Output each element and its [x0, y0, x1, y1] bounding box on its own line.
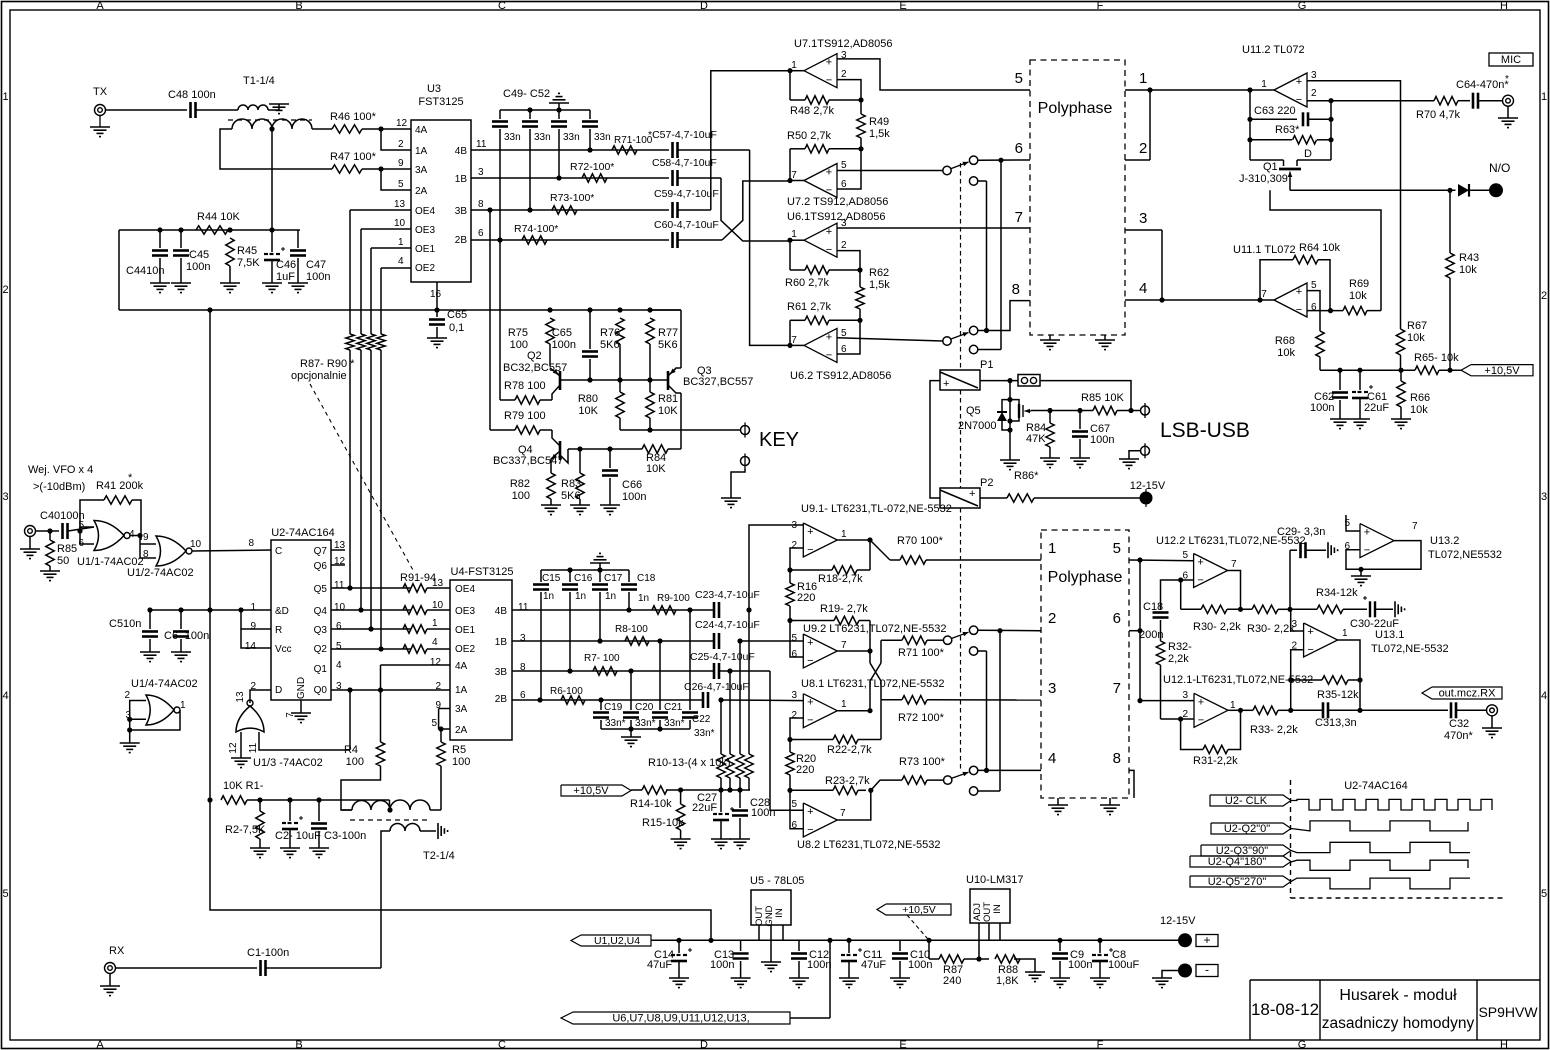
ground T2 rotated — [437, 823, 439, 839]
svg-text:OE4: OE4 — [455, 584, 475, 595]
capacitor C48 — [189, 102, 192, 118]
svg-text:H: H — [1500, 1039, 1508, 1050]
wire P2 to R86 — [980, 497, 1007, 499]
svg-text:LSB-USB: LSB-USB — [1160, 419, 1250, 442]
ground U1/3 — [231, 757, 251, 759]
capacitor C11 polarized — [848, 940, 850, 953]
rail nodes R10-13 — [718, 787, 723, 792]
linkage dashed mid — [960, 390, 962, 488]
node out fb — [1357, 677, 1362, 682]
svg-text:E: E — [899, 1039, 906, 1050]
wire 1B row — [471, 177, 669, 179]
connector VFO input — [25, 526, 36, 537]
resistor R78 — [515, 396, 540, 404]
svg-text:5: 5 — [398, 179, 404, 190]
wire R14 node to rail — [666, 789, 750, 791]
wire T1 primary to ground — [268, 109, 279, 111]
wire U9.1 pin3 from C23 — [749, 525, 803, 610]
transistor Q2 — [559, 371, 562, 390]
svg-text:2: 2 — [1048, 610, 1056, 627]
svg-text:R68: R68 — [1275, 335, 1295, 347]
capacitor C63 row — [1250, 118, 1297, 120]
svg-text:2: 2 — [124, 690, 130, 701]
ground C47 — [288, 282, 308, 284]
resistor R44 — [196, 226, 228, 234]
node R65/R43 — [1447, 368, 1452, 373]
ground R85c — [40, 570, 60, 572]
wire KEY2 to ground — [731, 469, 745, 499]
op-amp U11.1 — [1274, 283, 1307, 317]
svg-text:C48 100n: C48 100n — [168, 89, 216, 101]
svg-text:33n*: 33n* — [694, 728, 715, 739]
wire R22 up to out — [880, 700, 882, 740]
svg-text:33n: 33n — [563, 132, 580, 143]
connector MIC — [1503, 95, 1514, 106]
resistor R70c 4,7k — [1434, 97, 1458, 105]
svg-text:U2-74AC164: U2-74AC164 — [271, 527, 335, 539]
capacitor C62 — [1339, 370, 1341, 390]
base row nodes — [587, 377, 592, 382]
op-amp U12.1 — [1194, 693, 1228, 727]
node C5 — [147, 607, 152, 612]
svg-text:10: 10 — [394, 218, 406, 229]
svg-text:N/O: N/O — [1489, 161, 1510, 175]
wire P1 right — [980, 380, 1018, 382]
svg-text:8: 8 — [1012, 281, 1020, 298]
NOR gate U1/4 — [146, 695, 174, 725]
capacitor C31 — [1291, 709, 1322, 711]
svg-text:C18: C18 — [1143, 601, 1163, 613]
svg-text:3B: 3B — [495, 667, 508, 678]
U1,U2,U4 flag — [571, 935, 651, 946]
capacitor C60 — [671, 232, 674, 248]
node C19 top — [598, 697, 603, 702]
wire U8.1 pin2 — [790, 718, 803, 740]
capacitor C64 — [1458, 100, 1470, 102]
svg-text:TL072,NE5532: TL072,NE5532 — [1428, 549, 1502, 561]
svg-text:R45: R45 — [237, 245, 257, 257]
wire R13 corner — [749, 789, 750, 791]
svg-text:1: 1 — [1541, 91, 1547, 103]
capacitor C9 — [1059, 940, 1061, 951]
svg-text:R81: R81 — [658, 393, 678, 405]
relay P1 — [940, 370, 980, 390]
switch row6 arm — [951, 162, 969, 169]
ground C66 — [600, 504, 620, 506]
svg-text:U2-Q2"0": U2-Q2"0" — [1224, 823, 1270, 835]
leader dashed line — [310, 384, 413, 570]
svg-text:12-15V: 12-15V — [1130, 480, 1166, 492]
svg-text:RX: RX — [109, 945, 125, 957]
capacitor C51 — [558, 110, 560, 119]
svg-text:5: 5 — [1182, 550, 1188, 561]
node C20 top — [628, 668, 633, 673]
wire R50 to U7.2 out — [789, 149, 791, 181]
svg-text:11: 11 — [518, 602, 529, 613]
wire secondary to R46 — [312, 128, 332, 130]
resistor R76 — [616, 318, 624, 344]
wire U6.1 out down — [789, 240, 791, 270]
ground R66 — [1391, 418, 1411, 420]
ground C3 — [309, 847, 329, 849]
svg-text:P2: P2 — [980, 477, 993, 489]
U10 leads — [978, 923, 980, 959]
wire drop to U6 flag — [829, 940, 831, 1018]
svg-text:47uF: 47uF — [861, 959, 886, 971]
svg-text:C17: C17 — [604, 573, 623, 584]
ground U1/4 — [120, 742, 140, 744]
ground RX — [109, 974, 111, 987]
wire alt8 right — [978, 349, 1001, 351]
svg-text:+: + — [826, 57, 832, 69]
svg-text:R85 10K: R85 10K — [1081, 392, 1124, 404]
svg-text:1n: 1n — [543, 591, 554, 602]
svg-text:4: 4 — [1139, 280, 1147, 297]
svg-text:C46: C46 — [276, 259, 296, 271]
node R85c top — [47, 528, 52, 533]
node flag2 drop — [827, 938, 832, 943]
resistor R35 — [1291, 679, 1322, 681]
svg-text:1: 1 — [841, 529, 847, 540]
svg-text:GND: GND — [296, 677, 307, 699]
svg-text:R71 100*: R71 100* — [898, 647, 945, 659]
wire bias row left down to bus — [118, 230, 120, 310]
op-amp U7.1 — [804, 54, 837, 88]
svg-text:R41 200k: R41 200k — [96, 480, 144, 492]
svg-text:1: 1 — [1139, 70, 1147, 87]
svg-text:R5: R5 — [452, 744, 466, 756]
svg-text:−: − — [826, 349, 832, 361]
svg-text:11: 11 — [476, 139, 487, 150]
node Q4/R88 — [358, 607, 363, 612]
wire U13.2 follower loop — [1346, 541, 1421, 570]
linkage dashed lower — [960, 508, 962, 770]
svg-text:OE4: OE4 — [415, 206, 435, 217]
capacitor C19 — [600, 700, 602, 710]
svg-text:U9.1- LT6231,TL-072,NE-5532: U9.1- LT6231,TL-072,NE-5532 — [801, 503, 952, 515]
wire gate1 out to gate2 — [130, 535, 140, 537]
node R23 right — [868, 788, 873, 793]
svg-text:C29- 3,3n: C29- 3,3n — [1277, 526, 1325, 538]
transformer T1 secondary left winding — [232, 119, 272, 129]
resistor R18 — [790, 569, 832, 571]
svg-text:D: D — [1304, 148, 1312, 160]
capacitor C57 — [671, 142, 674, 158]
svg-text:Q7: Q7 — [314, 546, 328, 557]
svg-text:R72-100*: R72-100* — [570, 161, 614, 173]
op-amp U8.2 — [803, 803, 837, 837]
wire 3B drop to R79 — [489, 210, 491, 430]
capacitor C49 — [499, 110, 501, 119]
node bus C65 — [434, 307, 439, 312]
capacitor C52 — [589, 110, 591, 119]
resistor R83 — [579, 449, 581, 473]
U2 Q7 stub — [331, 549, 345, 551]
NOR gate U1/1 — [94, 521, 124, 551]
node LSB connector — [1128, 408, 1133, 413]
wire mic row to R70 — [1401, 100, 1435, 102]
svg-text:10K: 10K — [578, 405, 598, 417]
wire tap down to T2 primary — [389, 800, 391, 810]
wire poly out4 — [1125, 299, 1260, 301]
voltage regulator U10 LM317 — [970, 889, 1010, 923]
node C11 — [846, 938, 851, 943]
svg-text:R78 100: R78 100 — [504, 380, 546, 392]
waveform Q3 — [1291, 842, 1470, 852]
switch row2 throw — [969, 626, 977, 634]
collector row nodes — [577, 446, 582, 451]
ground Q5 — [1000, 459, 1020, 461]
swap vertical row6 to alt8 — [1000, 160, 1002, 349]
svg-text:OE2: OE2 — [415, 263, 435, 274]
svg-text:2: 2 — [1541, 290, 1547, 302]
Polyphase box 1 dashed — [1030, 60, 1125, 335]
wire U1/3 input 12 to ground — [240, 732, 242, 758]
wire poly out1 — [1125, 89, 1250, 91]
svg-text:C1-100n: C1-100n — [247, 947, 289, 959]
svg-text:R85: R85 — [57, 543, 77, 555]
U3 pin16 wire to bus — [436, 282, 438, 310]
svg-text:*: * — [1505, 74, 1509, 85]
wire U12.2 out down — [1228, 571, 1241, 610]
svg-text:3: 3 — [1541, 491, 1547, 503]
ground under box1 left — [1049, 335, 1051, 340]
node C15 on row — [537, 697, 542, 702]
node C8 — [1097, 938, 1102, 943]
svg-text:100n: 100n — [1310, 402, 1334, 414]
supply bus wire — [119, 309, 681, 311]
wire U6.2 pin6 feedback — [837, 320, 860, 354]
resistor R2 — [259, 800, 261, 811]
svg-text:R73 100*: R73 100* — [899, 756, 946, 768]
resistor R64 feedback — [1260, 260, 1293, 300]
switch row8 alt throw — [969, 345, 977, 353]
node R84 top — [1047, 408, 1052, 413]
switch row4 pole — [944, 776, 952, 784]
svg-text:3A: 3A — [415, 165, 428, 176]
svg-text:U13.2: U13.2 — [1430, 535, 1459, 547]
resistor R4 — [380, 690, 382, 742]
svg-text:2: 2 — [791, 710, 797, 721]
wire U8.1 pin3 from C26 — [721, 699, 803, 702]
ground C27 — [711, 838, 731, 840]
op-amp U7.2 — [804, 164, 837, 198]
svg-text:C2- 10uF: C2- 10uF — [275, 830, 321, 842]
wire 2B row — [512, 699, 702, 701]
capacitor C18 — [628, 570, 630, 582]
wire R5 to T2 — [440, 766, 442, 810]
svg-text:2,2k: 2,2k — [1168, 653, 1189, 665]
resistor R8 — [625, 637, 649, 645]
svg-text:10k: 10k — [1349, 290, 1367, 302]
ground minus — [1152, 977, 1172, 979]
ground under box2 right — [1109, 798, 1111, 805]
svg-text:R69: R69 — [1349, 278, 1369, 290]
bias row wire — [119, 229, 300, 231]
resistor R43 — [1446, 253, 1454, 278]
svg-text:33n: 33n — [534, 132, 551, 143]
wire alt2 stub — [978, 650, 987, 652]
wire C1 to T2 — [266, 967, 381, 969]
svg-text:C25-4,7-10uF: C25-4,7-10uF — [690, 651, 755, 663]
Polyphase box 2 dashed — [1041, 530, 1129, 798]
svg-text:C: C — [498, 1039, 506, 1050]
svg-text:R18-2,7k: R18-2,7k — [818, 573, 863, 585]
wire 2B drop to R78 — [499, 240, 501, 400]
svg-text:11: 11 — [248, 742, 259, 753]
svg-text:R30- 2,2k: R30- 2,2k — [1247, 623, 1295, 635]
svg-text:U7.2 TS912,AD8056: U7.2 TS912,AD8056 — [787, 196, 888, 208]
ground C2 — [280, 847, 300, 849]
svg-text:5: 5 — [791, 799, 797, 810]
svg-text:9: 9 — [250, 621, 256, 632]
svg-text:220: 220 — [797, 592, 815, 604]
svg-text:R: R — [275, 625, 282, 636]
resistor R88 — [995, 955, 1020, 963]
wire U7.1 pin2 down — [837, 80, 861, 100]
ground under box2 left — [1057, 798, 1059, 805]
ground above cap rail — [558, 103, 560, 110]
+10,5V flag mid — [877, 904, 951, 915]
node U7.2 out — [787, 178, 792, 183]
svg-text:+: + — [1307, 626, 1313, 638]
capacitor C66 — [609, 449, 611, 468]
svg-text:1: 1 — [432, 618, 438, 629]
svg-text:U2- CLK: U2- CLK — [1225, 795, 1268, 807]
diode D1 — [1458, 184, 1469, 197]
svg-text:U10-LM317: U10-LM317 — [966, 874, 1023, 886]
svg-text:G: G — [1298, 1039, 1307, 1050]
svg-text:6: 6 — [336, 621, 342, 632]
svg-text:R7- 100: R7- 100 — [584, 653, 620, 664]
svg-text:100n: 100n — [908, 959, 932, 971]
svg-text:R14-10k: R14-10k — [630, 798, 672, 810]
node row2 — [997, 628, 1002, 633]
svg-text:100n: 100n — [552, 339, 576, 351]
capacitor C61 polarized — [1359, 370, 1361, 390]
svg-text:U6.1TS912,AD8056: U6.1TS912,AD8056 — [787, 211, 885, 223]
ground C45 — [171, 282, 191, 284]
wire U6.1 pin2 down — [837, 251, 860, 270]
capacitor C10 — [899, 940, 901, 951]
svg-text:C22: C22 — [692, 714, 711, 725]
transistor Q5 2N7000 — [1009, 381, 1011, 460]
svg-text:R70 4,7k: R70 4,7k — [1416, 109, 1461, 121]
wire fb down — [1180, 580, 1182, 609]
wire node down to R87 row — [928, 940, 930, 959]
base row wire — [560, 379, 668, 381]
svg-text:Q2: Q2 — [527, 350, 542, 362]
wire U1/3 out to D pin — [250, 690, 271, 703]
wire Q3 collector down to R84 — [680, 393, 682, 449]
wire OE4 to vertical — [350, 209, 411, 211]
switch row6 alt throw — [969, 177, 977, 185]
flag U2-Q2 — [1211, 823, 1291, 834]
ground C29 rotated — [1327, 542, 1329, 558]
ground R2 — [250, 847, 270, 849]
svg-text:MIC: MIC — [1501, 54, 1521, 66]
node R44 right — [227, 227, 232, 232]
node R50/R49 — [858, 146, 863, 151]
svg-text:1: 1 — [1230, 700, 1236, 711]
relay P2 — [940, 488, 980, 508]
resistor R88 — [357, 334, 365, 350]
svg-text:1B: 1B — [495, 637, 508, 648]
svg-text:1A: 1A — [455, 685, 468, 696]
svg-text:−: − — [1364, 545, 1370, 557]
node C67 top — [1077, 408, 1082, 413]
node C16 on row — [567, 668, 572, 673]
svg-text:4: 4 — [336, 660, 342, 671]
svg-text:TX: TX — [93, 86, 108, 98]
T2 core dashed — [350, 819, 431, 821]
IC U4 FST3125 box — [450, 580, 512, 740]
resistor R10 — [720, 700, 722, 754]
svg-text:TL072,NE-5532: TL072,NE-5532 — [1371, 643, 1449, 655]
wire U7.2 pin5 to switch — [837, 170, 943, 172]
connector LSB1 — [1141, 406, 1150, 415]
capacitor C47 — [297, 230, 299, 248]
ground R83 — [570, 504, 590, 506]
resistor R33 — [1241, 709, 1254, 711]
wire U1/3 input 11 — [259, 732, 350, 750]
svg-text:4: 4 — [432, 637, 438, 648]
resistor R13 — [748, 610, 750, 754]
node C23 out — [746, 607, 751, 612]
node R9 out — [687, 607, 692, 612]
svg-text:B: B — [295, 1039, 302, 1050]
wire C31 to C32 — [1360, 709, 1448, 711]
svg-text:100n: 100n — [710, 959, 734, 971]
svg-text:Wej. VFO x 4: Wej. VFO x 4 — [28, 464, 93, 476]
svg-text:+: + — [807, 637, 813, 649]
resistor R34 — [1290, 608, 1317, 610]
capacitor C29 — [1290, 549, 1297, 551]
svg-text:U1,U2,U4: U1,U2,U4 — [594, 935, 640, 947]
svg-text:4: 4 — [398, 256, 404, 267]
ground C62 — [1330, 418, 1350, 420]
svg-text:13: 13 — [235, 691, 246, 703]
resistor R30b — [1227, 608, 1252, 610]
svg-text:5: 5 — [841, 160, 847, 171]
svg-text:R44 10K: R44 10K — [197, 211, 240, 223]
resistor R79 — [515, 426, 540, 434]
switch row8 throw — [969, 326, 977, 334]
svg-text:10K R1-: 10K R1- — [223, 780, 264, 792]
svg-text:OE1: OE1 — [415, 244, 435, 255]
transistor Q3 — [667, 371, 670, 390]
U4 3A/2A tie — [439, 708, 450, 710]
Q1 loop right — [1330, 101, 1332, 160]
svg-text:−: − — [826, 75, 832, 87]
svg-text:5K6: 5K6 — [600, 339, 620, 351]
svg-text:R91-94: R91-94 — [400, 572, 436, 584]
resistor R30a — [1181, 608, 1201, 610]
ground C6 — [171, 651, 191, 653]
svg-text:9: 9 — [398, 158, 404, 169]
resistor R71 — [612, 146, 637, 154]
svg-text:3: 3 — [478, 167, 484, 178]
ground T1 primary — [269, 103, 289, 105]
svg-text:KEY: KEY — [759, 429, 799, 451]
svg-text:1n: 1n — [605, 591, 616, 602]
wire R88 to ground — [1014, 959, 1035, 972]
op-amp U8.1 — [803, 694, 837, 728]
svg-text:C19: C19 — [604, 702, 623, 713]
svg-text:+: + — [943, 378, 949, 390]
switch row2 alt — [969, 647, 977, 655]
svg-text:R64 10k: R64 10k — [1299, 242, 1340, 254]
